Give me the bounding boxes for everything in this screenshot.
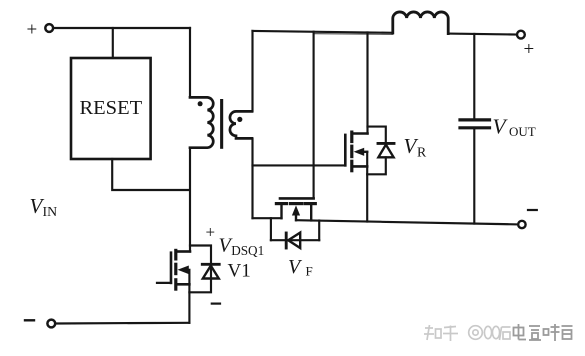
svg-text:V1: V1 [228, 261, 251, 282]
味 [544, 324, 560, 341]
V1 body arrow [178, 266, 189, 275]
svg-text:+: + [27, 20, 38, 41]
output terminal + [517, 31, 525, 39]
wire bottom-left rail [55, 322, 189, 325]
wire RESET top lead [112, 28, 114, 58]
VF body diode loop left [270, 218, 272, 240]
后 [500, 327, 511, 340]
知 [424, 325, 441, 340]
VR body diode loop bottom [367, 157, 386, 174]
svg-text:RESET: RESET [79, 97, 142, 119]
svg-text:R: R [417, 144, 427, 159]
V1 drain stub [177, 250, 190, 253]
wire bottom rail right [296, 220, 518, 224]
@ [469, 326, 483, 340]
V1 body diode bar [202, 263, 219, 266]
V1 gate bar [170, 253, 173, 283]
wire top rail left segment [253, 31, 393, 33]
VR channel bar [350, 132, 353, 141]
svg-text:F: F [306, 264, 313, 279]
MOSFET V1 drain lead [189, 148, 191, 252]
V1 channel bar [174, 250, 177, 259]
svg-text:+: + [524, 39, 535, 60]
VF body diode bar [285, 233, 288, 248]
VF arrow stub [295, 214, 297, 220]
wire rail left of VF [253, 217, 282, 219]
蕾 [562, 326, 573, 339]
乎 [443, 326, 458, 342]
VR gate bar [344, 135, 347, 166]
label - output [528, 209, 537, 211]
V1 source stub [176, 283, 190, 286]
svg-text:DSQ1: DSQ1 [231, 243, 264, 258]
V1 body diode triangle [203, 266, 219, 279]
MOSFET VR gate wire [253, 164, 346, 166]
MOSFET VF gate lead [313, 32, 315, 199]
svg-text:IN: IN [43, 204, 58, 219]
VF channel bar [276, 202, 286, 205]
VR body diode triangle [378, 145, 393, 158]
label - VDSQ1 [212, 303, 220, 305]
V1 source lead [188, 270, 190, 323]
wire top rail right segment [448, 33, 517, 36]
VR body diode bar [378, 142, 394, 145]
VF body diode triangle [288, 233, 300, 248]
wire top rail ghost overlap [314, 33, 393, 36]
capacitor C plates [460, 118, 490, 121]
wire top-left rail [53, 27, 190, 29]
transformer secondary winding [230, 111, 252, 138]
VF source stub [310, 204, 312, 221]
wire RESET bottom lead [112, 159, 190, 190]
VF body arrow [292, 205, 300, 215]
input terminal - [47, 320, 55, 328]
wire secondary bottom vertical [251, 138, 253, 218]
VR body arrow [354, 148, 365, 156]
VR source lead [366, 152, 368, 222]
V1 gate lead [157, 282, 171, 284]
primary phase dot [198, 101, 203, 106]
output terminal - [518, 221, 525, 228]
VF body diode loop right [318, 221, 320, 241]
label - input [25, 319, 34, 321]
电 [514, 324, 527, 340]
VF gate bar [280, 197, 314, 200]
transformer core [220, 99, 223, 149]
VR arrow stub [364, 151, 368, 153]
secondary phase dot [237, 117, 242, 122]
源 [529, 326, 541, 340]
capacitor bottom lead [473, 128, 475, 224]
svg-text:OUT: OUT [509, 124, 536, 139]
VR source stub [352, 165, 367, 168]
V1 body diode loop [189, 246, 211, 293]
wire secondary top vertical [251, 31, 253, 112]
wire primary top vertical [189, 28, 191, 97]
VR drain stub [353, 132, 367, 135]
00 [484, 326, 491, 338]
inductor L [393, 12, 448, 34]
VF drain stub [280, 204, 282, 219]
watermark 知乎 @00后电源味蕾 [424, 325, 511, 341]
svg-text:+: + [206, 223, 216, 242]
transformer primary winding [190, 97, 213, 147]
capacitor top lead [473, 34, 475, 120]
VR body diode loop top [368, 127, 386, 144]
input terminal + [45, 24, 53, 32]
RESET block [71, 58, 151, 159]
VR drain lead [366, 32, 368, 133]
VF body diode lead [271, 239, 319, 241]
